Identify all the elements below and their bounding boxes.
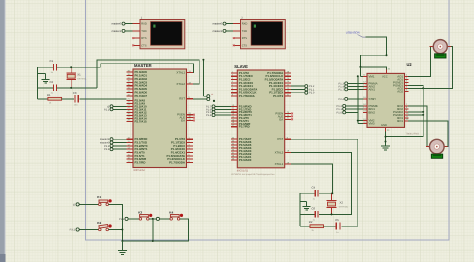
junction crystal2 bottom (331, 213, 333, 215)
wire master1 to VT1 TXD (125, 30, 132, 32)
ground switches (118, 248, 127, 254)
svg-text:XTAL2: XTAL2 (176, 82, 185, 86)
mcu U3 SLAVE 80C51 (231, 64, 293, 176)
svg-text:P1.0: P1.0 (309, 92, 315, 95)
svg-text:RTS: RTS (242, 37, 248, 40)
junction VM rail top (357, 75, 359, 77)
wire P1.7 to slave P3.0 (215, 105, 231, 107)
wire slave right to P1.0 (291, 92, 304, 94)
wire P1.1 to U2 (346, 108, 363, 110)
wire K2 to vertical (109, 229, 123, 231)
wire C3 to master (79, 98, 126, 100)
window left edge (0, 0, 6, 262)
svg-text:U2: U2 (407, 62, 413, 67)
junction rail mid (152, 240, 154, 242)
svg-text:master1: master1 (212, 30, 222, 33)
svg-text:master0: master0 (111, 23, 121, 26)
capacitor C4 (312, 185, 319, 200)
node P1.0 right of slave (305, 91, 315, 95)
capacitor C6 (312, 207, 319, 222)
crystal X2 (327, 193, 349, 214)
junction rail left (121, 240, 123, 242)
button K2 (97, 221, 111, 231)
svg-text:VM3: VM3 (369, 122, 375, 126)
svg-text:C2: C2 (50, 80, 54, 84)
wire R2 to C5 (324, 225, 336, 227)
svg-text:AO2: AO2 (397, 89, 403, 93)
svg-text:master0: master0 (212, 23, 222, 26)
node RST lower (207, 93, 214, 101)
wire VCC loop (360, 55, 386, 67)
capacitor C3 electrolytic (73, 91, 79, 107)
junction PGND mid2 (422, 114, 424, 116)
wire crystal2 top rail (300, 192, 332, 194)
motor M2 label plate (431, 154, 442, 158)
svg-text:RST: RST (179, 97, 185, 101)
wire slave RST net (291, 139, 358, 226)
svg-text:BIN2: BIN2 (369, 110, 376, 114)
node P1.4 U2 (339, 85, 348, 89)
node P1.4 slave (206, 114, 215, 118)
wire AO2 to motor1 (423, 47, 452, 89)
node t2 switch (73, 203, 79, 207)
virtual terminal 2 (233, 16, 285, 49)
wire slave XTAL1 net (291, 164, 332, 193)
wire crystal1 top rail (38, 66, 101, 68)
wire P1.4 to U2 (348, 85, 363, 87)
wire P3.3 to master P3.3 (113, 148, 126, 150)
wire P3.1 to K2 (79, 229, 98, 231)
wire gnd stub (121, 241, 123, 248)
node master0 master (100, 141, 113, 145)
junction K3 (152, 218, 154, 220)
svg-text:P3.7/RD: P3.7/RD (135, 161, 146, 165)
wire PGND net (386, 85, 424, 136)
svg-text:CTS: CTS (141, 44, 147, 47)
wire P3.2 to master P3.2 (113, 145, 126, 147)
node P2.1 master (104, 108, 113, 112)
wire gnd rail crystal1 (37, 67, 39, 99)
button K4 (169, 211, 183, 221)
svg-text:PIC\89C51 test project\18 Chip: PIC\89C51 test project\18 Chip\chipproje… (231, 173, 275, 176)
wire AO1 to motor1 (408, 47, 433, 77)
node t2 master (107, 105, 113, 109)
svg-text:C3: C3 (73, 91, 77, 95)
wire VM feed terminal (346, 111, 358, 113)
ground crystal1 (38, 73, 50, 83)
junction gnd branch2 (385, 141, 387, 143)
node P1.7 slave (206, 105, 215, 109)
node P1.3 U2 (339, 82, 348, 86)
svg-text:RXD: RXD (141, 23, 147, 26)
wire U2 gnd down (385, 131, 387, 146)
svg-text:CTS: CTS (242, 44, 248, 47)
wire VM rail (358, 76, 364, 123)
wire AO2 join (408, 87, 423, 89)
junction crystal1 bottom (70, 87, 72, 89)
svg-text:C5: C5 (335, 218, 339, 222)
wire P1.6 to slave P3.1 (215, 108, 231, 110)
node master0 at VT1 (111, 22, 125, 26)
svg-text:X2: X2 (340, 200, 344, 204)
node master0 at VT2 (212, 22, 226, 26)
svg-text:P1.7/SIODA: P1.7/SIODA (239, 94, 256, 98)
wire P1.2 to K3 (128, 218, 139, 220)
svg-text:STBY: STBY (369, 97, 377, 101)
wire slave right to P1.1 (291, 88, 304, 90)
svg-text:master1: master1 (111, 30, 121, 33)
node P1.1 U2 (337, 107, 346, 111)
wire master0 to VT1 RXD (125, 23, 132, 25)
svg-text:RTS: RTS (141, 37, 147, 40)
virtual terminal 1 (132, 16, 185, 49)
wire PGND2b (408, 114, 423, 116)
button K3 (138, 211, 152, 221)
wire P1.7 to U2 (348, 88, 363, 90)
wire crystal1 bottom rail (38, 87, 97, 89)
svg-text:R2: R2 (309, 220, 313, 224)
wire K3 to gnd rail (149, 219, 156, 241)
wire P1.3 to K4 (160, 218, 170, 220)
wire P1.4 to slave P3.3 (215, 114, 231, 116)
svg-text:C1: C1 (50, 59, 54, 63)
crystal X1 (66, 67, 87, 88)
svg-text:P1.7/SIODA: P1.7/SIODA (169, 161, 186, 165)
wire slave right to P1.2 (291, 85, 304, 87)
svg-text:P1.0/T2: P1.0/T2 (273, 94, 284, 98)
svg-text:BO1: BO1 (397, 119, 403, 123)
node P1.2 right of slave (305, 85, 315, 89)
node P1.2 U2 (337, 104, 346, 108)
svg-text:RXD: RXD (242, 23, 248, 26)
wire t2 to master P2.2 (113, 105, 126, 107)
svg-text:C6: C6 (312, 207, 316, 211)
junction U2 VM1 node (359, 66, 361, 68)
wire P2.1 to master P2.3 (113, 108, 126, 110)
svg-text:AIN1: AIN1 (369, 87, 376, 91)
wire gnd to R1 (38, 98, 48, 100)
junction crystal1 top (70, 66, 72, 68)
junction VM rail mid (357, 120, 359, 122)
svg-text:P2.1: P2.1 (104, 108, 110, 111)
resistor R1 (47, 93, 62, 105)
svg-text:CRYSTAL: CRYSTAL (77, 77, 87, 80)
junction slave left (213, 100, 215, 102)
node P2.4 U2 (339, 97, 348, 101)
node P1.1 right of slave (305, 88, 315, 92)
capacitor C2 (50, 80, 57, 95)
svg-text:R1: R1 (47, 93, 51, 97)
svg-text:RST: RST (277, 137, 283, 141)
wire P1.3 to U2 (348, 82, 363, 84)
junction v3 (202, 59, 204, 61)
svg-text:EA: EA (181, 119, 185, 123)
net label USENSOR (346, 30, 366, 37)
node VM feed (337, 111, 346, 115)
svg-text:VCC: VCC (382, 76, 388, 79)
wire PGND2a (408, 111, 423, 113)
svg-text:XTAL2: XTAL2 (275, 150, 284, 154)
svg-text:P1.0: P1.0 (337, 111, 343, 114)
wire down to VM1 (360, 67, 363, 76)
wire master0 to master P3.1 (113, 142, 126, 144)
wire BO2 to motor2 (408, 106, 429, 147)
svg-text:TXD: TXD (141, 30, 146, 33)
svg-text:P0.7/AD7: P0.7/AD7 (135, 94, 148, 98)
svg-text:P1.4: P1.4 (206, 114, 212, 117)
svg-text:XTAL1: XTAL1 (176, 71, 185, 75)
wire P2.4 to U2 (348, 98, 363, 100)
svg-text:P1.7: P1.7 (339, 88, 345, 91)
wire master1 to master P3.0 (113, 138, 126, 140)
wire crystal2 bottom rail (300, 213, 331, 215)
node P1.6 slave (206, 108, 215, 112)
motor driver U2 TB6612FNG (363, 62, 419, 135)
wire K4 to gnd rail (122, 219, 188, 241)
node master1 master (100, 138, 113, 142)
svg-text:P3.7/RD: P3.7/RD (239, 125, 250, 129)
motor M1 (430, 40, 451, 54)
junction PGND top (422, 87, 424, 89)
svg-text:P3.3: P3.3 (104, 148, 110, 151)
node P3.1 switch (70, 228, 80, 232)
svg-text:SLAVE: SLAVE (234, 64, 248, 69)
sheet border (86, 0, 450, 240)
node P1.7 U2 (339, 88, 348, 92)
junction crystal2 top (331, 192, 333, 194)
wire t2 to K1 (79, 203, 98, 205)
node P1.2 switch (119, 217, 128, 221)
node master1 at VT1 (111, 29, 125, 33)
svg-text:GND: GND (381, 124, 387, 127)
svg-text:P2.7/A15: P2.7/A15 (135, 119, 147, 123)
junction K2 (121, 229, 123, 231)
node RST upper (207, 95, 210, 98)
svg-text:CRYSTAL: CRYSTAL (339, 205, 349, 208)
svg-text:80C51/52: 80C51/52 (237, 169, 249, 172)
motor M2 (426, 139, 448, 154)
junction PGND mid1 (422, 111, 424, 113)
wire slave XTAL2 net (291, 152, 351, 214)
wire RST to node (193, 98, 207, 100)
svg-text:C4: C4 (312, 185, 316, 189)
node P3.3 master (104, 148, 113, 152)
resistor R2 (309, 220, 324, 232)
svg-text:80C51/52: 80C51/52 (134, 169, 146, 172)
svg-text:K4: K4 (169, 211, 173, 215)
svg-text:P0.0/AD0: P0.0/AD0 (239, 158, 252, 162)
node master1 at VT2 (212, 29, 226, 33)
node P1.5 slave (206, 111, 215, 115)
svg-text:P2.4: P2.4 (339, 98, 345, 101)
mcu U1 MASTER 80C51 (127, 63, 195, 172)
wire USENSOR to VCC net (366, 37, 387, 55)
svg-text:VM1: VM1 (369, 74, 375, 78)
svg-text:TB6612FNG: TB6612FNG (406, 132, 420, 135)
wire XTAL1 net master (101, 64, 194, 73)
wire master0 to VT2 RXD (226, 23, 233, 25)
wire gnd rail crystal2 (299, 193, 301, 226)
svg-text:K1: K1 (97, 195, 101, 199)
motor M1 label plate (435, 54, 446, 58)
ground U2 (381, 146, 390, 150)
capacitor C1 (50, 59, 57, 74)
wire gnd to R2 (300, 225, 310, 227)
svg-text:EA: EA (279, 117, 283, 121)
node P1.3 switch (156, 217, 159, 220)
wire master1 to VT2 TXD (226, 30, 233, 32)
capacitor C5 electrolytic (335, 218, 340, 234)
wire to U2 VCC pin (360, 67, 386, 70)
svg-text:TXD: TXD (242, 30, 247, 33)
svg-text:X1: X1 (77, 73, 81, 77)
svg-text:K2: K2 (97, 221, 101, 225)
wire K1 to gnd rail (109, 204, 123, 241)
wire BO1 to motor2 (408, 121, 448, 147)
junction gnd branch (385, 136, 387, 138)
wire node up to XTAL2 net (203, 60, 206, 96)
wire P1.5 to slave P3.2 (215, 111, 231, 113)
svg-text:P3.1: P3.1 (70, 229, 76, 232)
wire R1 to C3 (62, 98, 75, 100)
wire XTAL2 net master (97, 60, 199, 88)
wire P1.2 to U2 (346, 105, 363, 107)
svg-text:K3: K3 (138, 211, 142, 215)
svg-text:P1.2: P1.2 (119, 218, 125, 221)
node P3.2 master (104, 144, 113, 148)
svg-text:USENSOR: USENSOR (346, 30, 360, 34)
junction VCC top (386, 54, 388, 56)
ground crystal2 (300, 201, 311, 210)
svg-text:XTAL1: XTAL1 (275, 162, 284, 166)
button K1 (97, 195, 111, 205)
